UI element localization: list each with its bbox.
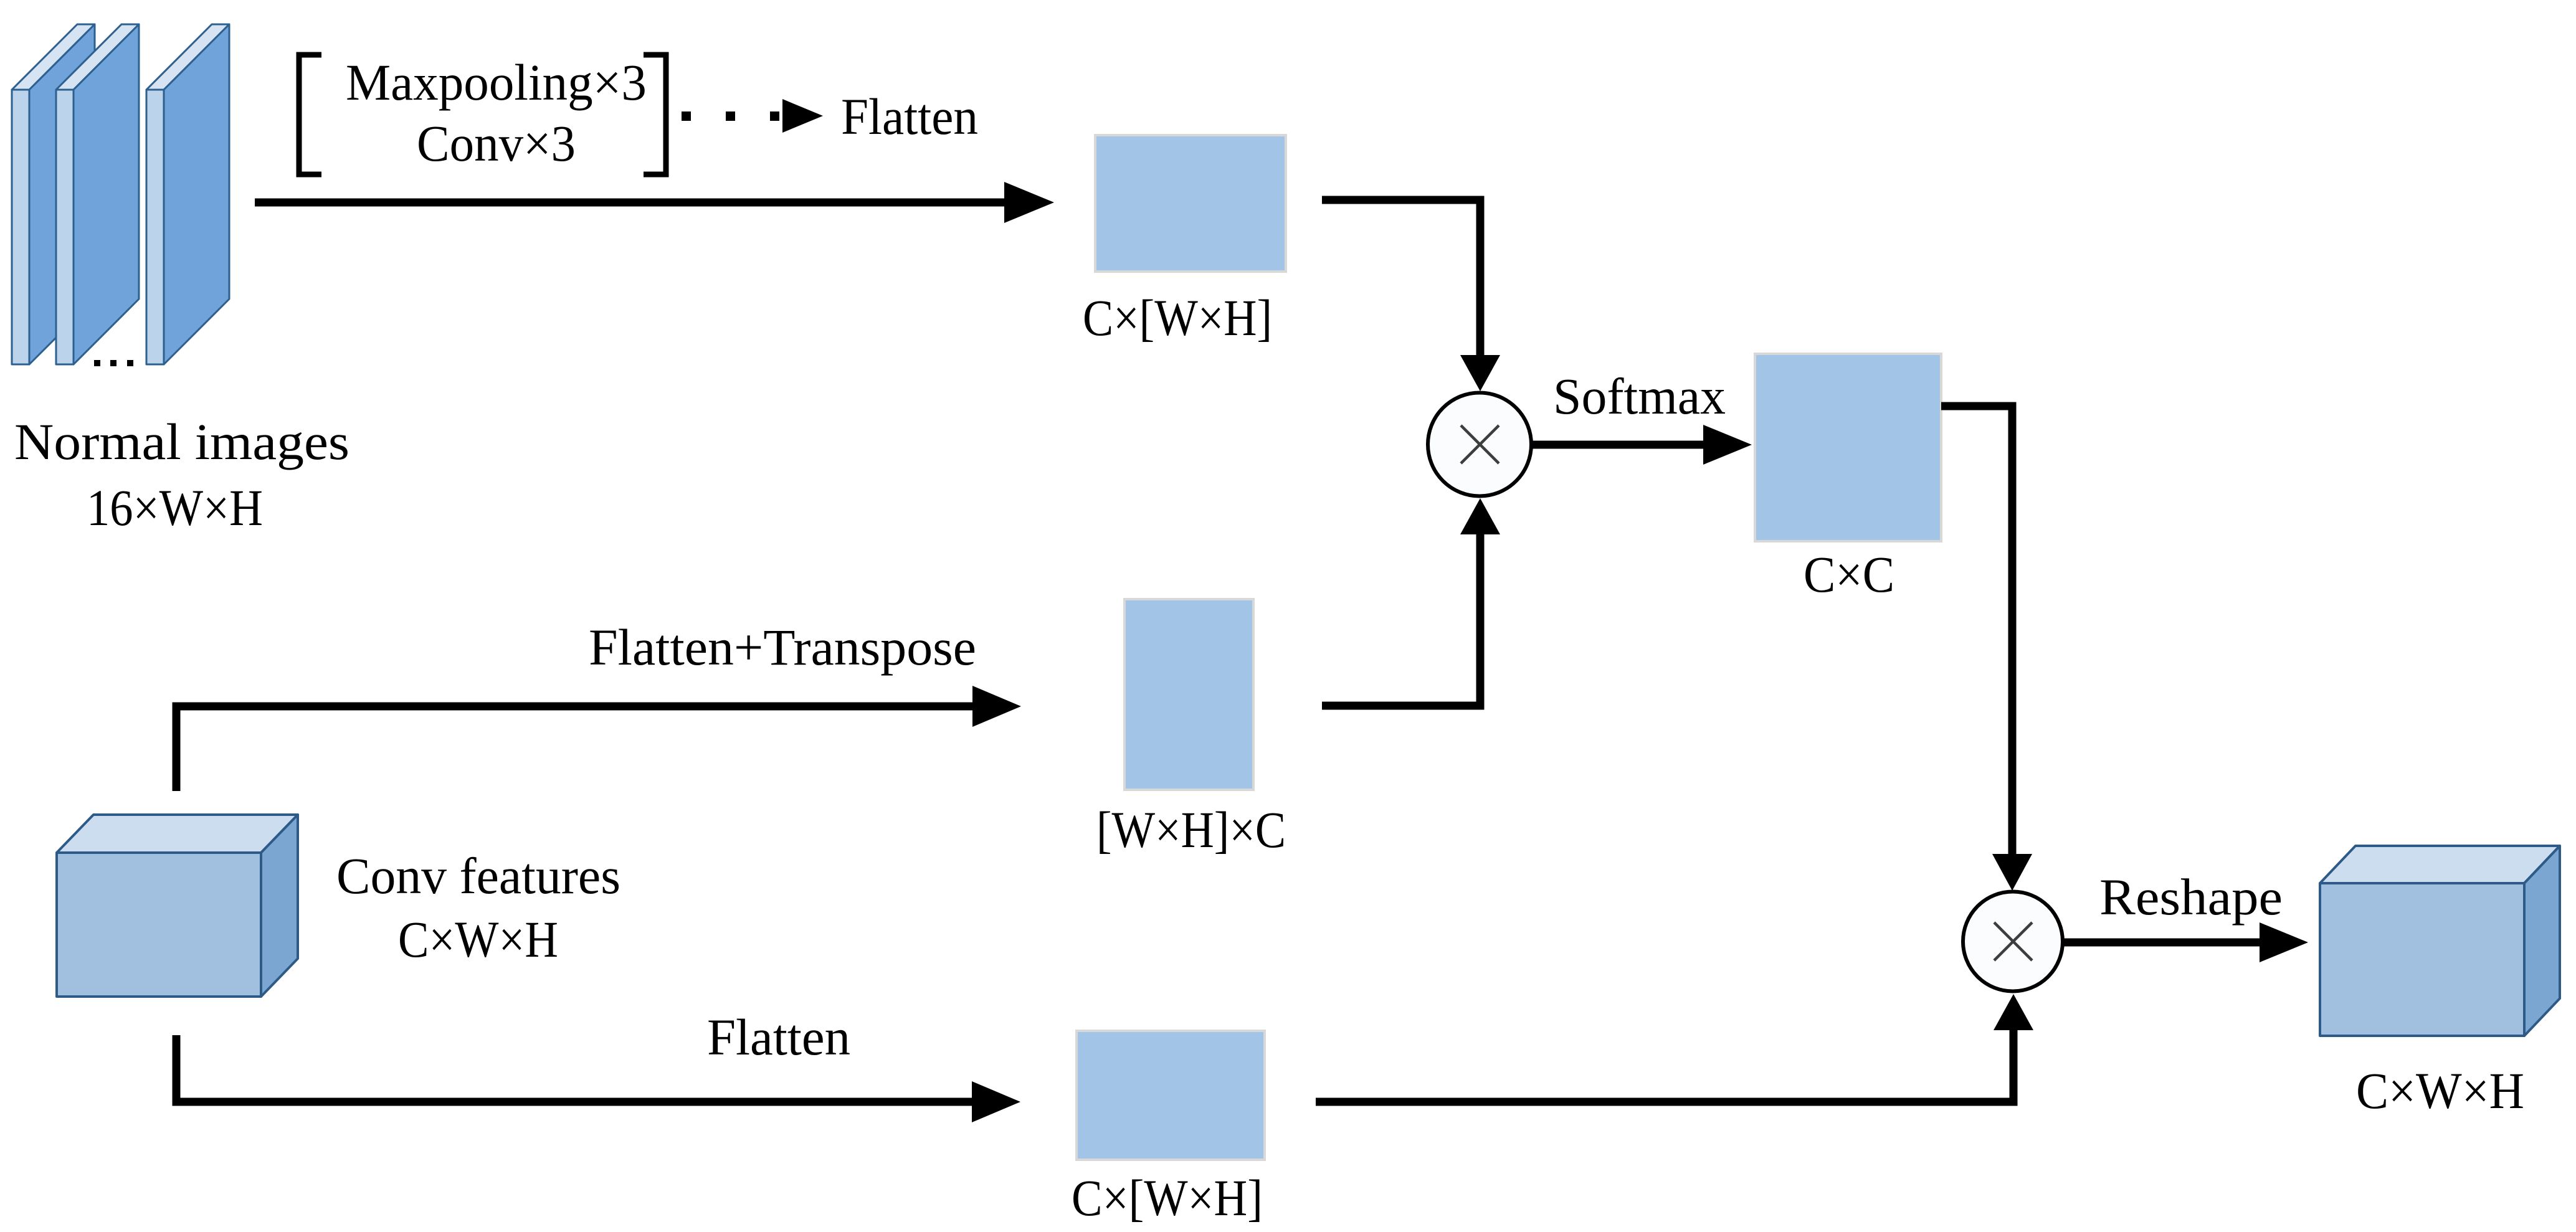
svg-text:[W×H]×C: [W×H]×C: [1096, 801, 1286, 858]
conv features cube: [57, 815, 298, 997]
input image panel 3: [146, 24, 229, 364]
wire elbow conv cube to bottom CxWH matrix: [176, 1035, 972, 1102]
wire elbow WxHxC matrix up to multiply circle 1: [1322, 534, 1480, 706]
matrix WxHxC: [1124, 599, 1253, 790]
multiply circle 2: [1963, 892, 2063, 992]
svg-text:C×[W×H]: C×[W×H]: [1072, 1169, 1263, 1226]
svg-text:Conv×3: Conv×3: [417, 115, 576, 172]
wire reshape arrow circle 2 to output cube: [2063, 939, 2263, 947]
svg-text:Conv features: Conv features: [336, 847, 620, 904]
input image panel 2: [56, 24, 139, 364]
input image panel 1: [12, 24, 95, 364]
bracket right: [644, 55, 666, 174]
matrix Cx[WxH] bottom: [1077, 1031, 1265, 1160]
svg-text:C×C: C×C: [1804, 546, 1894, 603]
output cube: [2320, 846, 2560, 1036]
svg-text:C×W×H: C×W×H: [398, 911, 558, 968]
svg-text:Maxpooling×3: Maxpooling×3: [346, 54, 647, 111]
svg-text:16×W×H: 16×W×H: [87, 479, 263, 536]
bracket left: [299, 55, 321, 174]
wire elbow bottom matrix to multiply circle 2: [1316, 1030, 2013, 1102]
ellipsis dots under panels: [94, 360, 133, 366]
multiply circle 1: [1428, 393, 1531, 496]
dotted arrow dots: [682, 111, 779, 121]
svg-text:C×[W×H]: C×[W×H]: [1083, 289, 1272, 346]
wire softmax arrow circle 1 to CxC matrix: [1531, 441, 1707, 449]
svg-text:C×W×H: C×W×H: [2356, 1062, 2524, 1119]
svg-text:Flatten: Flatten: [707, 1008, 850, 1066]
svg-text:Flatten: Flatten: [841, 88, 978, 145]
dotted arrow head: [782, 99, 823, 133]
wire elbow CxWH matrix to multiply circle 1: [1322, 200, 1480, 356]
wire long arrow panels to CxWH matrix: [255, 199, 1005, 207]
svg-text:Flatten+Transpose: Flatten+Transpose: [589, 618, 976, 676]
matrix Cx[WxH] top: [1095, 135, 1286, 272]
wire elbow CxC matrix down to multiply circle 2: [1941, 406, 2012, 855]
svg-text:Normal images: Normal images: [14, 413, 349, 470]
svg-text:Softmax: Softmax: [1553, 367, 1726, 425]
wire elbow conv cube to WxHxC matrix: [176, 706, 972, 791]
matrix CxC: [1755, 354, 1941, 541]
svg-text:Reshape: Reshape: [2099, 868, 2283, 926]
